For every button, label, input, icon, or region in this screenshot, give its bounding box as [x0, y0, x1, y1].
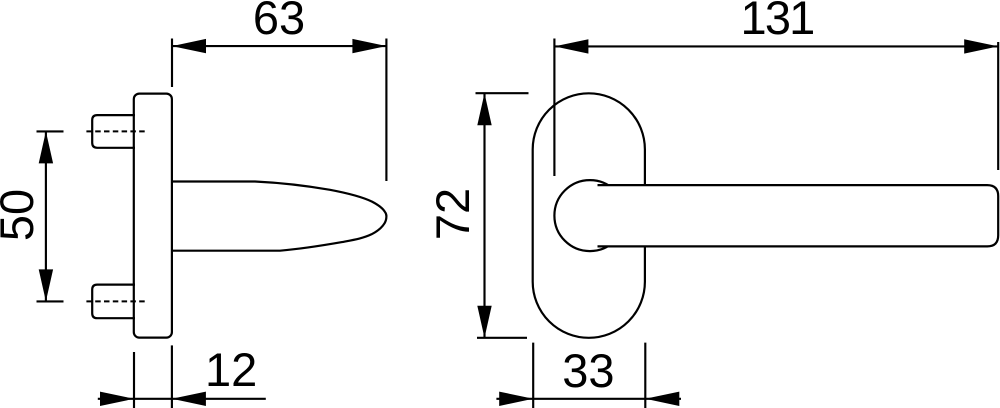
dimension 12 [98, 345, 266, 408]
svg-text:33: 33 [562, 344, 614, 397]
svg-text:50: 50 [0, 189, 43, 241]
dashed centerline upper stud [86, 130, 146, 132]
dimension 131 [554, 39, 998, 177]
svg-text:63: 63 [253, 0, 305, 44]
dashed centerline lower stud [86, 300, 146, 302]
neck circle [554, 180, 625, 251]
dimension 50 [37, 131, 64, 301]
svg-text:131: 131 [740, 0, 813, 44]
svg-text:72: 72 [426, 188, 479, 240]
lower stud [92, 285, 135, 319]
grip outline [598, 185, 999, 246]
svg-text:12: 12 [205, 343, 257, 396]
dimension 63 [172, 39, 386, 182]
rose plate side profile [134, 94, 172, 338]
upper stud [92, 115, 135, 148]
grip fill mask [593, 185, 998, 246]
oval rose [533, 93, 645, 337]
dimension 33 [496, 343, 681, 408]
dimension 72 [476, 93, 529, 338]
handle grip side profile [172, 182, 387, 251]
